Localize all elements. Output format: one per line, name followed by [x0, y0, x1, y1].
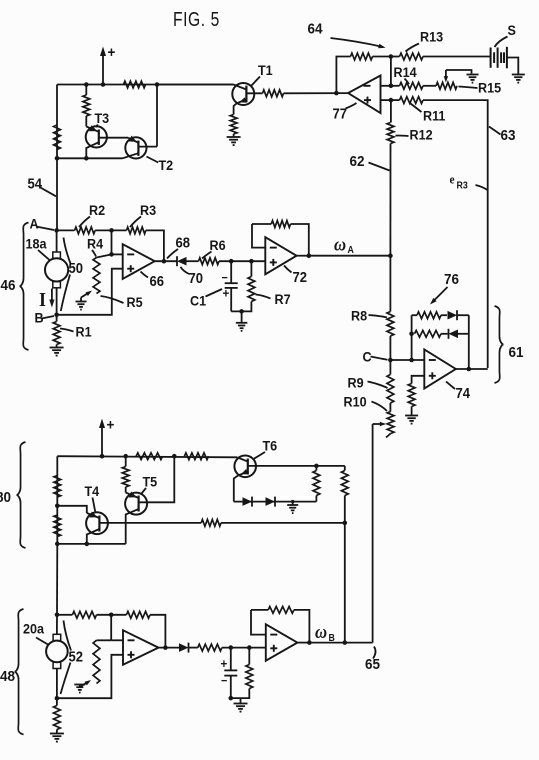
node A2 mid — [109, 613, 114, 618]
wire 76 top right — [457, 314, 469, 316]
svg-text:R3: R3 — [140, 202, 156, 218]
leader C1 — [206, 289, 223, 297]
wire R7 bottom — [231, 302, 251, 312]
resistor 48b feedback — [268, 607, 294, 614]
wire R4 top — [97, 254, 112, 257]
op-amp 72 — [265, 237, 296, 274]
wire R13 left — [391, 56, 400, 58]
wire node to omegaB — [344, 523, 346, 643]
resistor T6 res2 — [341, 471, 348, 496]
resistor R1 — [53, 322, 60, 345]
wiper R10 — [373, 423, 382, 425]
ground 48 R1 — [50, 733, 64, 735]
arrow 76 — [433, 287, 448, 302]
node 76 lower-left — [409, 332, 414, 337]
arrow I — [51, 289, 53, 303]
svg-text:T2: T2 — [159, 157, 174, 173]
leader R2 — [79, 217, 90, 228]
wire B to R1 — [56, 315, 58, 322]
node omegaA junction — [388, 253, 393, 258]
node 48 cap top — [229, 645, 234, 650]
resistor R8 — [387, 312, 394, 337]
wire 76 right vertical — [468, 315, 470, 369]
svg-text:C1: C1 — [190, 293, 207, 309]
leader R11 — [411, 104, 422, 113]
resistor 48 r2 — [126, 611, 150, 618]
leader S — [495, 37, 508, 48]
ground 48 filter — [234, 703, 248, 705]
node A — [54, 228, 59, 233]
wire B2 to R1 — [56, 698, 58, 705]
svg-text:I: I — [39, 289, 46, 311]
ground 48 pot — [74, 684, 85, 686]
wire 72 minus stub — [252, 224, 265, 248]
wire bottom rail — [57, 157, 123, 159]
svg-text:76: 76 — [444, 271, 459, 288]
wire second vertical to T3 — [85, 116, 87, 127]
wire T3 base to T2 — [99, 137, 128, 139]
resistor T5 collector — [122, 467, 129, 488]
node lower rail t5c — [123, 454, 128, 459]
svg-text:61: 61 — [509, 344, 524, 361]
svg-text:77: 77 — [333, 106, 348, 122]
wire R9 to R10 — [389, 403, 391, 412]
wire R5 wiper gnd stem — [80, 298, 82, 302]
wire R1 to gnd — [56, 345, 58, 348]
svg-text:e: e — [450, 172, 456, 187]
svg-text:64: 64 — [308, 21, 323, 38]
wire A to motor — [56, 230, 58, 252]
wire C to 74 minus — [390, 359, 424, 361]
wire T4 branch — [57, 506, 87, 513]
leader R10 — [372, 402, 388, 412]
wire 48a plus to B2 — [57, 655, 123, 698]
wire R7 top — [250, 261, 252, 276]
leader T5 — [142, 488, 147, 494]
wire lower bottom rail — [57, 543, 125, 545]
svg-text:66: 66 — [150, 273, 165, 289]
wire lower block down — [56, 544, 58, 615]
ground diode line — [287, 504, 298, 506]
ground 74 plus — [405, 415, 418, 417]
svg-text:R10: R10 — [344, 394, 367, 410]
leader R1 — [60, 329, 74, 332]
wire R14 left — [391, 85, 400, 87]
node 48 r7 top — [247, 645, 252, 650]
svg-text:A: A — [348, 244, 354, 256]
wire T4 base line — [99, 522, 201, 524]
node 64 — [389, 54, 394, 59]
wire T1 base res to 77 — [284, 92, 349, 94]
leader 70 — [181, 267, 190, 274]
node T6 base res — [314, 464, 319, 469]
leader R12 — [396, 135, 409, 138]
svg-text:R5: R5 — [127, 294, 144, 310]
wire T6 res2 bot — [344, 496, 346, 523]
svg-text:52: 52 — [69, 649, 84, 665]
resistor 48 pot — [93, 640, 100, 683]
node 48b out — [307, 640, 312, 645]
wire R11 to 63 line — [423, 100, 488, 368]
leader R8 — [369, 315, 388, 318]
wire omegaA line — [309, 255, 391, 257]
wire diode line — [234, 501, 317, 503]
svg-text:R4: R4 — [87, 236, 104, 252]
resistor R9 — [387, 375, 394, 404]
svg-text:ω: ω — [315, 621, 327, 642]
svg-text:+: + — [223, 286, 230, 301]
svg-text:48: 48 — [0, 668, 15, 685]
brace 80 — [17, 442, 26, 548]
wire 76 bot diode lead — [441, 333, 448, 335]
svg-text:T4: T4 — [85, 483, 100, 499]
svg-text:A: A — [30, 216, 39, 232]
resistor 76 bottom — [415, 330, 442, 337]
wire R14 to R15 — [423, 85, 436, 87]
node lower mid junction — [343, 521, 348, 526]
wiper R5 arrow — [81, 293, 89, 298]
wire A2 to motor — [56, 615, 58, 635]
leader R6 — [202, 252, 212, 259]
ground T1 emitter — [227, 136, 241, 138]
wire omegaA to R8 — [389, 256, 391, 312]
op-amp 48a — [123, 630, 159, 664]
transistor T3 — [86, 126, 107, 147]
node 66 out — [162, 259, 167, 264]
leader T4 — [93, 498, 96, 514]
resistor R7 — [248, 277, 255, 302]
svg-text:R9: R9 — [348, 375, 364, 391]
wire 76 bot right — [458, 333, 469, 335]
node 77 plus — [389, 98, 394, 103]
leader A — [36, 227, 54, 231]
leader 74 — [446, 382, 455, 390]
wire 76 top diode lead — [441, 314, 447, 316]
leader 68 — [167, 249, 178, 259]
wire 76 top branch — [412, 314, 417, 316]
leader 77 — [346, 103, 357, 109]
svg-text:FIG. 5: FIG. 5 — [173, 8, 220, 31]
op-amp 66 — [123, 244, 155, 279]
leader T6 — [254, 452, 265, 459]
svg-text:T1: T1 — [258, 62, 273, 78]
wire minus to 66 — [112, 253, 123, 255]
diode 48 — [179, 643, 189, 652]
wiper 48 pot — [80, 682, 88, 687]
svg-text:74: 74 — [456, 385, 471, 401]
wire T6 res2 top — [344, 466, 346, 471]
svg-text:S: S — [508, 22, 517, 38]
wire 74 out — [456, 368, 488, 370]
ground R1 — [50, 347, 64, 349]
resistor 48 series — [198, 644, 222, 651]
diode 76 top — [448, 311, 458, 320]
wire omegaB line — [309, 642, 372, 644]
wire rail to T1 — [157, 84, 234, 86]
leader B — [42, 316, 55, 319]
svg-text:R12: R12 — [410, 127, 433, 143]
svg-text:R8: R8 — [351, 308, 367, 324]
wire R8 to C — [389, 336, 391, 360]
leader 50 upper — [64, 238, 71, 264]
wire 72 out — [297, 255, 309, 257]
op-amp 77 — [348, 76, 380, 114]
wire 48b minus stub — [251, 610, 266, 635]
node lower bottom mid — [85, 542, 90, 547]
wire 74 plus — [412, 376, 425, 384]
wire R10 wiper down — [372, 424, 374, 643]
leader R9 — [368, 382, 388, 389]
wire 77 feedback — [336, 57, 350, 94]
diode lower 1 — [243, 497, 253, 506]
svg-text:R14: R14 — [394, 64, 418, 80]
node 74 out — [467, 367, 472, 372]
wire 72 feedback — [252, 224, 309, 256]
capacitor 48 — [230, 648, 232, 671]
svg-text:20a: 20a — [23, 621, 45, 637]
wire 48 minus branch — [110, 615, 112, 641]
node 48a out — [163, 645, 168, 650]
wire 74plus res gnd — [411, 407, 413, 416]
leader 72 — [284, 266, 292, 273]
wire 48R7 top — [248, 648, 250, 665]
leader 52 upper — [64, 621, 72, 651]
wire A2 line — [57, 614, 72, 616]
node bottom rail mid — [84, 156, 89, 161]
wire motor to B2 — [56, 669, 58, 699]
node 74 minus branch — [409, 358, 414, 363]
resistor R11 — [400, 97, 424, 104]
diode 76 bottom — [449, 330, 459, 339]
brace 48 — [15, 609, 24, 735]
wire 48 r1-r2 — [97, 614, 127, 616]
svg-text:+: + — [108, 44, 116, 61]
wire 48 pot top — [97, 639, 112, 641]
wire R2 to R3 — [95, 229, 126, 231]
node lower bottom left — [55, 542, 60, 547]
resistor 72 feedback — [271, 221, 290, 228]
node rail-left-res — [84, 82, 89, 87]
wire T5 coll lead — [125, 487, 127, 493]
svg-text:18a: 18a — [26, 236, 48, 252]
ground battery — [512, 74, 525, 76]
leader 20a — [36, 638, 48, 645]
wire diode gnd stem — [292, 502, 294, 505]
wire lower rail — [57, 456, 237, 457]
resistor T6 res1 — [313, 471, 320, 496]
svg-text:62: 62 — [350, 153, 365, 170]
wire 48b out — [297, 642, 309, 644]
node A2 — [55, 613, 60, 618]
svg-text:63: 63 — [501, 127, 516, 144]
leader T2 — [147, 157, 159, 163]
node 77 minus — [389, 84, 394, 89]
transistor T2 — [125, 137, 146, 158]
svg-text:R3: R3 — [457, 180, 469, 192]
svg-text:+: + — [221, 656, 228, 671]
wire T2 base — [138, 146, 157, 148]
svg-text:R15: R15 — [478, 80, 502, 96]
node rail-right — [155, 82, 160, 87]
resistor 76 top — [417, 312, 441, 319]
wire T1 emitter to gnd — [233, 134, 235, 137]
wire T5 base — [139, 456, 175, 502]
resistor left vertical — [54, 125, 61, 150]
ground R15 wiper — [467, 74, 479, 76]
node C1 top — [229, 259, 234, 264]
op-amp 74 — [424, 350, 456, 389]
wire R13 to battery — [423, 56, 491, 58]
svg-text:54: 54 — [28, 176, 43, 192]
wire gnd stem C1R7 — [241, 311, 243, 322]
wire diode to R6 — [186, 260, 199, 262]
node lower rail power — [100, 454, 105, 459]
wire motor to B — [56, 288, 58, 315]
leader 54 — [40, 187, 57, 196]
wire 48 r2 to out — [150, 615, 165, 648]
node C — [388, 358, 393, 363]
node 77 out — [334, 91, 339, 96]
wire 54 vertical — [56, 158, 58, 231]
svg-text:R11: R11 — [423, 108, 446, 124]
wire A line — [57, 229, 75, 231]
power + supply arrow lower — [101, 422, 103, 456]
wiper R15 — [445, 70, 447, 79]
power + supply arrow — [102, 50, 104, 85]
leader R14 — [405, 79, 410, 85]
svg-text:T6: T6 — [263, 438, 278, 454]
leader R5 — [101, 296, 124, 303]
wire top rail — [57, 84, 234, 86]
resistor lower rail 1 — [136, 453, 163, 460]
wire R6 to 72 — [219, 260, 265, 262]
resistor second vertical — [83, 95, 90, 116]
node omegaB junction — [343, 640, 348, 645]
node 48 gnd — [229, 696, 234, 701]
wire 48 minus — [111, 639, 123, 641]
resistor lower rail 2 — [184, 453, 208, 460]
transistor T1 — [232, 83, 254, 105]
brace 46 — [20, 223, 29, 351]
leader R7 — [256, 295, 271, 299]
svg-text:72: 72 — [293, 269, 308, 285]
svg-text:T5: T5 — [143, 474, 158, 490]
svg-text:46: 46 — [1, 277, 16, 294]
wire R12 to omegaA — [389, 144, 391, 256]
wire 76 left vertical — [411, 315, 413, 360]
wire 48a out — [159, 647, 180, 649]
wire R3 to 66 output — [146, 230, 164, 261]
resistor 48 R1 — [54, 706, 61, 730]
svg-text:R1: R1 — [76, 324, 93, 340]
leader T3 — [96, 125, 98, 128]
resistor T1 base — [263, 90, 284, 97]
brace 61 — [495, 306, 504, 383]
svg-text:70: 70 — [189, 270, 204, 286]
leader R15 — [459, 87, 478, 89]
capacitor C1 — [230, 261, 232, 283]
svg-text:−: − — [221, 675, 228, 688]
wire node64 to minus — [390, 57, 392, 86]
svg-text:80: 80 — [0, 489, 11, 506]
motor 20a armature 52 — [46, 641, 68, 663]
wire 48 gnd stem — [240, 698, 242, 703]
resistor R6 — [199, 258, 220, 265]
wire 66 plus to B — [57, 269, 123, 315]
battery S — [490, 48, 492, 68]
ground R5 — [76, 301, 87, 303]
resistor R10 — [387, 412, 394, 434]
leader 63 — [489, 127, 501, 135]
wire left vertical — [56, 85, 58, 159]
svg-text:68: 68 — [176, 235, 191, 251]
arrow 64 — [331, 38, 382, 47]
resistor R3 — [127, 227, 146, 234]
leader C — [371, 357, 388, 360]
node lower left mid — [55, 504, 60, 509]
transistor T5 — [125, 493, 147, 515]
motor 18a armature 50 — [45, 258, 68, 281]
wire right vertical to T2 base — [156, 85, 158, 147]
diode lower 2 — [266, 497, 276, 506]
wire R15 wiper top — [446, 70, 472, 74]
wire feedback to node — [373, 56, 391, 58]
node bottom rail left — [55, 156, 60, 161]
leader R3 — [130, 217, 141, 228]
resistor 48 R7 — [246, 665, 253, 689]
node C1R7 gnd — [239, 309, 244, 314]
transistor T6 — [234, 456, 256, 478]
node R7 top — [249, 259, 254, 264]
node A-R2R3 — [109, 228, 114, 233]
leader T1 — [251, 77, 260, 87]
node lower rail t5b — [172, 454, 177, 459]
resistor 48 r1 — [72, 611, 96, 618]
wire 48b feedback — [251, 610, 309, 643]
leader R4 — [92, 250, 96, 257]
wire C to R9 — [389, 360, 391, 375]
wire 77plus to R12 — [390, 100, 392, 122]
svg-text:R13: R13 — [420, 29, 443, 45]
resistor T1 emitter — [230, 115, 237, 135]
resistor R4 — [93, 258, 100, 294]
wire T6 res1 bot — [315, 496, 317, 502]
resistor R2 — [75, 227, 96, 234]
node diode gnd tap — [291, 500, 294, 503]
wire T1 base — [246, 92, 262, 94]
svg-text:65: 65 — [365, 656, 380, 673]
svg-text:R7: R7 — [275, 291, 291, 307]
wire T6 base — [248, 465, 345, 467]
ground C1R7 — [236, 322, 248, 324]
resistor 77 feedback — [351, 53, 373, 60]
node B2 — [55, 696, 60, 701]
svg-text:−: − — [222, 272, 229, 285]
resistor lower left v2 — [54, 515, 61, 537]
node B — [54, 313, 59, 318]
wire 48 wiper gnd stem — [79, 685, 81, 688]
wire T5 collector res — [125, 456, 127, 466]
leader 66 — [141, 272, 149, 278]
wire 48 res to 48b — [222, 647, 266, 649]
wire 48R7 bot — [231, 689, 250, 699]
node rail-power — [101, 82, 106, 87]
wire second vertical upper — [85, 85, 87, 96]
resistor R15 — [436, 82, 457, 89]
wire lower left vertical — [56, 456, 58, 544]
leader R13 — [406, 44, 420, 52]
diode 70 — [177, 257, 187, 266]
